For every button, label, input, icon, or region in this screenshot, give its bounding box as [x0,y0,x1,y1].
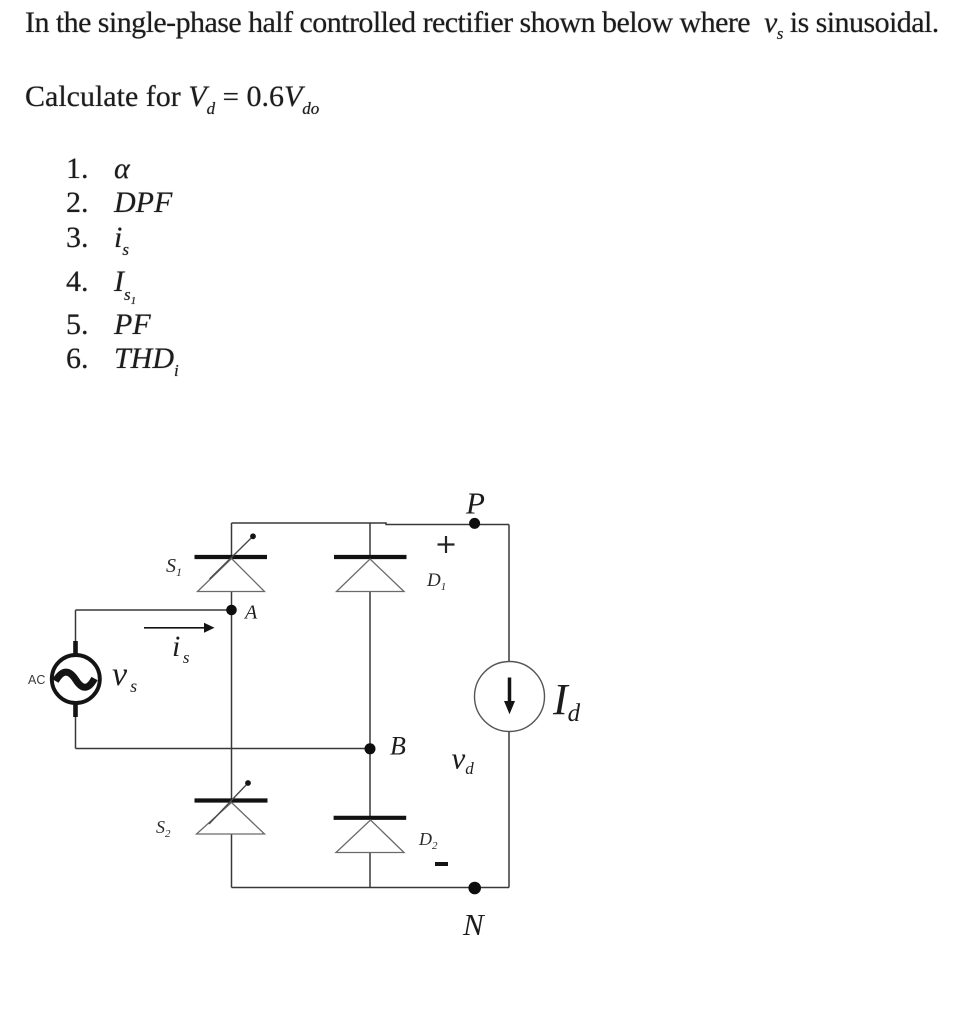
minus sign [435,862,448,866]
wire bottom rail [232,887,510,889]
wire D branch top [369,523,371,557]
wire AC bottom horizontal to node B [76,748,371,750]
wire right branch lower [508,732,510,888]
wire AC top horizontal to node A [76,609,232,611]
svg-text:vs: vs [112,656,137,696]
current source Id [475,662,545,732]
node A [226,605,237,616]
paragraph line 1 [25,8,939,42]
list item 6 THDi [66,344,89,374]
svg-text:D1: D1 [426,570,446,593]
list item 2 DPF [66,188,89,218]
list item 3 is [66,223,89,253]
thyristor S1 [195,533,268,591]
paragraph line 2 [25,82,319,117]
svg-text:S1: S1 [166,555,182,579]
diode D1 [334,557,407,592]
wire S branch between S1 and A [231,592,233,611]
wire D branch B to D2 [369,749,371,817]
wire D branch D2 to bottom rail [369,853,371,888]
svg-text:AC: AC [28,673,45,687]
svg-text:S2: S2 [156,817,171,840]
wire S branch A to S2 [231,610,233,799]
list item 4 Is1 [66,267,89,297]
svg-text:N: N [462,907,486,942]
list item 5 PF [66,310,89,340]
list item 1 alpha [66,154,89,184]
svg-text:vd: vd [452,741,475,779]
svg-text:D2: D2 [418,829,438,852]
AC source [52,641,100,717]
svg-text:Id: Id [552,675,581,727]
wire S branch top [231,523,233,556]
wire AC top vertical [75,610,77,642]
plus sign [438,536,455,553]
wire top rail [232,523,510,525]
wire AC bottom vertical [75,716,77,749]
diode D2 [334,818,407,853]
svg-text:A: A [243,602,258,624]
thyristor S2 [195,780,268,834]
svg-text:P: P [465,486,485,521]
wire D branch D1 to B [369,592,371,749]
node P [469,518,480,529]
wire S branch S2 to bottom rail [231,834,233,888]
svg-text:B: B [390,732,406,761]
node N [468,882,481,895]
current arrow is [144,623,215,633]
wire right branch upper [508,525,510,662]
node B [365,743,376,754]
svg-text:is: is [172,630,190,667]
